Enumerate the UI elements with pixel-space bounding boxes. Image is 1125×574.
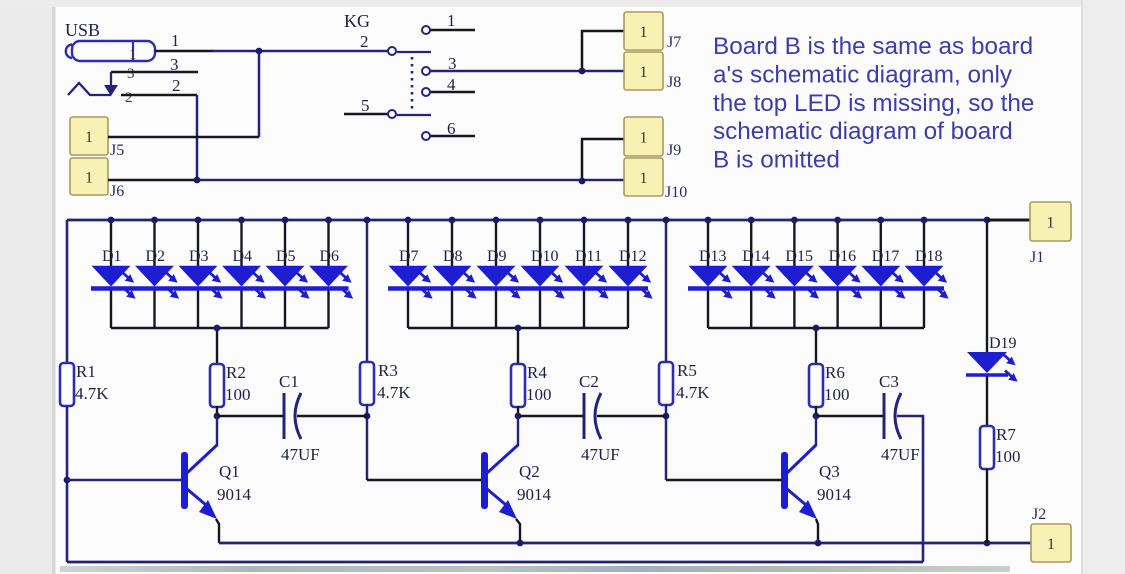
wire [216,406,218,416]
wire [197,179,624,182]
junction [815,540,822,547]
svg-text:D15: D15 [785,248,813,265]
wire [155,50,213,53]
svg-text:B is omitted: B is omitted [713,147,840,174]
junction [813,325,820,332]
LED D6 [327,220,329,268]
switch lever [397,114,431,116]
svg-text:Q3: Q3 [819,462,840,481]
wire [366,220,369,362]
junction [364,413,371,420]
connector J2 [1031,524,1071,562]
wire [212,50,392,53]
switch lever [397,51,431,53]
svg-text:R3: R3 [378,361,398,380]
wire [708,327,924,330]
wire [517,328,519,363]
KG pin 5 [344,113,388,116]
wire [196,95,199,180]
svg-text:schematic diagram of board: schematic diagram of board [713,118,1013,145]
resistor R5 [659,362,673,405]
KG pin 6 [430,135,475,138]
svg-text:J6: J6 [110,183,124,200]
wire [430,70,624,73]
svg-text:C2: C2 [579,372,599,391]
svg-text:R7: R7 [996,425,1016,444]
cathode bar group 2 [388,286,648,291]
svg-text:R5: R5 [677,361,697,380]
svg-text:9014: 9014 [217,485,252,504]
connector J8 [624,52,663,90]
svg-text:1: 1 [640,170,648,187]
plug detect arrow [68,83,111,95]
junction [214,413,221,420]
resistor R6 [809,364,823,407]
wire [987,219,1030,222]
svg-text:R1: R1 [76,362,96,381]
wire [665,404,668,480]
svg-text:1: 1 [85,129,93,146]
wire [258,51,261,137]
wire [815,406,817,416]
LED D18 [923,220,925,268]
svg-text:1: 1 [1047,215,1055,232]
svg-text:J8: J8 [667,74,681,91]
svg-text:D13: D13 [699,248,727,265]
svg-text:2: 2 [360,32,369,51]
junction [515,325,522,332]
svg-text:2: 2 [125,90,133,106]
emitter ground bus [219,542,1031,545]
svg-text:100: 100 [526,385,552,404]
switch linkage [411,57,414,112]
svg-text:R4: R4 [527,363,547,382]
wire [582,139,624,181]
svg-text:4.7K: 4.7K [377,383,411,402]
connector J6 [70,158,108,195]
svg-text:J7: J7 [667,34,681,51]
transistor Q3 [781,452,788,509]
svg-text:J9: J9 [667,142,681,159]
junction [813,413,820,420]
connector J7 [624,12,663,50]
left bus wire [66,220,69,363]
svg-text:100: 100 [995,447,1021,466]
wire [408,327,628,330]
transistor Q1 [181,452,188,509]
LED D15 [793,220,795,268]
LED D17 [880,220,882,268]
cathode bar group 3 [688,286,944,291]
junction [579,68,586,75]
svg-text:D14: D14 [742,248,770,265]
svg-text:J10: J10 [665,184,687,201]
svg-text:D7: D7 [399,248,419,265]
svg-text:100: 100 [225,385,251,404]
wire [665,220,668,362]
wire [897,416,923,562]
USB connector body [72,41,155,61]
KG pin 3 [422,67,430,75]
wire [111,327,329,330]
resistor R4 [511,364,525,407]
svg-text:D5: D5 [276,248,296,265]
svg-text:Board B is the same as board: Board B is the same as board [713,33,1033,60]
svg-text:1: 1 [640,64,648,81]
junction [663,217,670,224]
svg-text:D16: D16 [829,248,857,265]
svg-text:47UF: 47UF [881,445,920,464]
connector J5 [70,117,108,155]
wire [66,406,69,562]
svg-text:R6: R6 [825,363,845,382]
KG pin 2 [388,47,396,55]
svg-text:D9: D9 [487,248,507,265]
connector J10 [624,158,663,196]
feedback bus [67,561,923,564]
svg-text:1: 1 [85,170,93,187]
svg-text:D3: D3 [189,248,209,265]
svg-text:D18: D18 [915,248,943,265]
svg-text:a's schematic diagram, only: a's schematic diagram, only [713,61,1013,88]
LED D8 [451,220,453,268]
junction [364,217,371,224]
wire [217,415,283,417]
svg-text:C1: C1 [279,372,299,391]
LED D2 [153,220,155,268]
svg-text:J5: J5 [110,142,124,159]
wire [67,479,181,482]
svg-text:1: 1 [1047,536,1055,553]
LED D1 [110,220,112,268]
transistor Q2 [481,452,488,509]
junction [214,325,221,332]
wire [666,479,781,482]
wire [108,136,259,139]
connector J9 [624,117,663,156]
connector J1 [1030,202,1071,241]
svg-text:KG: KG [344,11,370,31]
svg-text:6: 6 [447,119,456,138]
wire [986,469,988,543]
LED D7 [407,220,409,268]
svg-text:J1: J1 [1030,249,1044,266]
svg-text:D8: D8 [443,248,463,265]
top power bus [67,219,1030,222]
LED D5 [284,220,286,268]
wire [597,415,666,417]
junction [194,177,201,184]
junction [579,178,586,185]
wire [582,31,624,71]
svg-text:9014: 9014 [817,485,852,504]
svg-text:5: 5 [361,96,370,115]
junction [663,413,670,420]
svg-text:D19: D19 [989,335,1017,352]
svg-text:D11: D11 [575,248,602,265]
junction [515,413,522,420]
resistor R7 [980,426,994,469]
svg-text:47UF: 47UF [581,445,620,464]
capacitor C2 [583,393,586,439]
svg-text:D4: D4 [233,248,253,265]
resistor R2 [210,364,224,407]
LED D4 [240,220,242,268]
resistor R3 [360,362,374,405]
svg-text:D6: D6 [320,248,340,265]
wire [297,415,367,417]
wire [815,328,817,363]
svg-text:D12: D12 [619,248,647,265]
capacitor C1 [283,393,286,439]
svg-text:100: 100 [824,385,850,404]
wire [108,179,197,182]
wire [111,71,198,74]
cathode bar group 1 [91,286,349,291]
resistor R1 [60,363,74,406]
svg-text:2: 2 [172,76,181,95]
svg-text:1: 1 [640,130,648,147]
LED D14 [750,220,752,268]
wire [366,404,369,480]
KG pin 1 [430,29,475,32]
LED D3 [197,220,199,268]
LED D9 [495,220,497,268]
KG pin 4 [430,91,475,94]
svg-text:D2: D2 [146,248,166,265]
LED D13 [707,220,709,268]
svg-text:3: 3 [127,66,135,82]
junction [984,540,991,547]
wire [518,415,583,417]
svg-text:1: 1 [447,11,456,30]
svg-text:9014: 9014 [517,485,552,504]
wire [216,328,218,363]
LED D19 [967,352,1007,373]
svg-text:4: 4 [447,75,456,94]
svg-text:R2: R2 [226,363,246,382]
LED D12 [627,220,629,268]
wire [121,94,197,97]
junction [517,540,524,547]
svg-text:1: 1 [640,24,648,41]
LED D11 [583,220,585,268]
svg-text:Q2: Q2 [519,462,540,481]
svg-text:4.7K: 4.7K [75,384,109,403]
wire [517,406,519,416]
wire [986,376,988,426]
svg-text:1: 1 [129,47,137,63]
junction [256,48,263,55]
junction [984,217,991,224]
junction [64,477,71,484]
wire [816,415,883,417]
wire [986,220,988,352]
LED D16 [836,220,838,268]
svg-text:D10: D10 [531,248,559,265]
svg-text:USB: USB [65,20,100,40]
svg-text:47UF: 47UF [281,445,320,464]
capacitor C3 [883,393,886,439]
svg-text:J2: J2 [1032,506,1046,523]
svg-text:Q1: Q1 [219,462,240,481]
svg-text:D1: D1 [102,248,122,265]
svg-text:D17: D17 [872,248,900,265]
svg-text:C3: C3 [879,372,899,391]
LED D10 [539,220,541,268]
svg-text:1: 1 [171,31,180,50]
svg-text:4.7K: 4.7K [676,383,710,402]
wire [367,479,481,482]
svg-text:the top LED is missing, so the: the top LED is missing, so the [713,90,1034,117]
